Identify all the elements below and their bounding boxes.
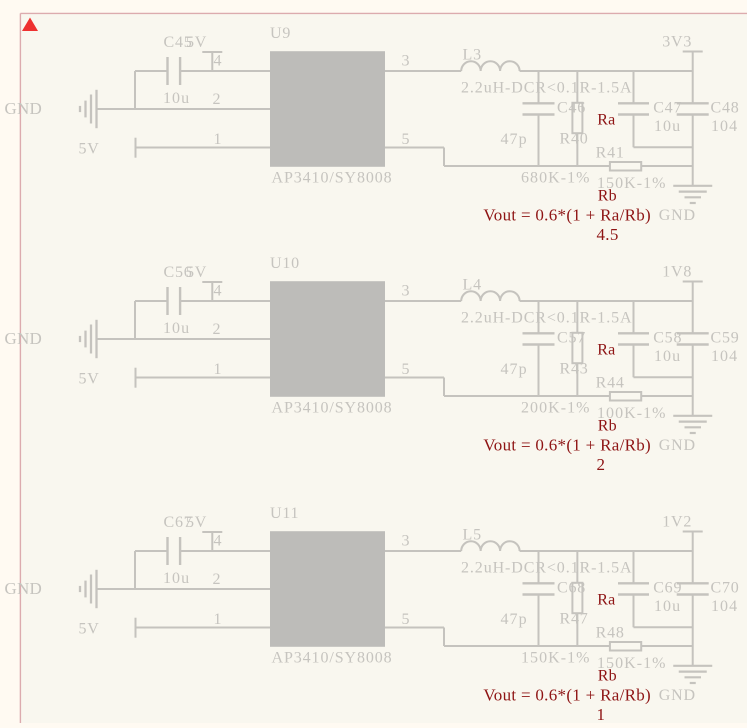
svg-text:1: 1: [214, 131, 223, 148]
svg-text:4: 4: [214, 52, 223, 69]
wire to C56 left plate: [135, 300, 168, 302]
capacitor C57: [538, 301, 540, 333]
power symbol 1V2: [683, 531, 703, 533]
svg-text:5: 5: [402, 131, 411, 148]
wire pin 3 to inductor L3: [385, 70, 461, 72]
svg-text:3V3: 3V3: [662, 33, 692, 50]
power symbol 1V8: [683, 281, 703, 283]
svg-text:GND: GND: [659, 687, 696, 704]
svg-text:C59: C59: [711, 329, 740, 346]
wire C45 to pin 4: [180, 70, 270, 72]
capacitor C58: [633, 301, 635, 333]
svg-text:5V: 5V: [186, 514, 207, 531]
wire R44 to ground net: [641, 395, 693, 397]
inductor L4: [461, 291, 519, 301]
svg-text:Vout = 0.6*(1 + Ra/Rb): Vout = 0.6*(1 + Ra/Rb): [483, 205, 651, 224]
power symbol 5V (top): [211, 282, 213, 301]
svg-text:104: 104: [711, 598, 738, 615]
wire 5V stub to pin 1 of U9: [136, 147, 271, 149]
svg-text:R41: R41: [596, 144, 625, 161]
connector stub 5V (bottom left): [135, 138, 137, 158]
resistor R41 (Rb): [610, 162, 641, 171]
svg-text:1V8: 1V8: [662, 263, 692, 280]
output net vertical wire 1V2: [692, 532, 694, 584]
inductor L5: [461, 541, 519, 551]
ground symbol GND (right): [673, 415, 712, 417]
svg-text:10u: 10u: [163, 90, 190, 107]
wire junction to C67: [134, 551, 136, 589]
svg-text:AP3410/SY8008: AP3410/SY8008: [272, 400, 393, 417]
svg-text:U10: U10: [270, 255, 300, 272]
svg-text:2.2uH-DCR<0.1R-1.5A: 2.2uH-DCR<0.1R-1.5A: [461, 80, 632, 97]
wire C67 to pin 4: [180, 550, 270, 552]
svg-text:10u: 10u: [654, 348, 681, 365]
svg-text:Ra: Ra: [597, 112, 615, 129]
wire pin 5 of U9: [385, 147, 444, 149]
marker red triangle: [22, 18, 38, 32]
wire junction to C56: [134, 301, 136, 339]
svg-text:R48: R48: [596, 624, 625, 641]
wire GND to pin 2 of U11: [97, 588, 271, 590]
svg-text:Rb: Rb: [598, 668, 617, 685]
svg-text:Vout = 0.6*(1 + Ra/Rb): Vout = 0.6*(1 + Ra/Rb): [483, 685, 651, 704]
svg-text:Rb: Rb: [598, 418, 617, 435]
output net vertical wire 3V3: [692, 52, 694, 104]
svg-text:C48: C48: [711, 99, 740, 116]
wire C56 to pin 4: [180, 300, 270, 302]
svg-text:5V: 5V: [186, 264, 207, 281]
resistor R47 (Ra): [576, 551, 578, 583]
connector stub 5V (bottom left): [135, 368, 137, 388]
resistor R48 (Rb): [610, 642, 641, 651]
svg-text:47p: 47p: [501, 131, 528, 148]
capacitor C46: [538, 71, 540, 103]
resistor R40 (Ra): [576, 71, 578, 103]
svg-text:U11: U11: [270, 505, 299, 522]
svg-text:1V2: 1V2: [662, 513, 692, 530]
capacitor C56: [166, 287, 168, 315]
wire L3 to output net 3V3: [520, 70, 693, 72]
svg-text:GND: GND: [5, 99, 42, 118]
svg-text:C70: C70: [711, 579, 740, 596]
svg-text:1: 1: [214, 361, 223, 378]
capacitor C70: [677, 582, 709, 584]
wire to C67 left plate: [135, 550, 168, 552]
svg-text:10u: 10u: [163, 320, 190, 337]
ground symbol GND (right): [673, 185, 712, 187]
feedback rail to R48: [444, 645, 610, 647]
svg-text:5: 5: [402, 611, 411, 628]
svg-text:5V: 5V: [79, 621, 100, 638]
svg-text:R40: R40: [560, 130, 589, 147]
svg-text:GND: GND: [659, 207, 696, 224]
svg-text:4: 4: [214, 532, 223, 549]
svg-text:3: 3: [402, 282, 411, 299]
svg-text:10u: 10u: [163, 570, 190, 587]
wire to C45 left plate: [135, 70, 168, 72]
capacitor C68: [538, 551, 540, 583]
svg-text:10u: 10u: [654, 598, 681, 615]
svg-text:5: 5: [402, 361, 411, 378]
capacitor C47: [633, 71, 635, 103]
feedback rail to R44: [444, 395, 610, 397]
capacitor C69: [633, 551, 635, 583]
resistor R43 (Ra): [576, 301, 578, 333]
inductor L3: [461, 61, 519, 71]
svg-text:GND: GND: [5, 579, 42, 598]
feedback rail to R41: [444, 165, 610, 167]
svg-text:10u: 10u: [654, 118, 681, 135]
wire L4 to output net 1V8: [520, 300, 693, 302]
power symbol 5V (top): [211, 52, 213, 71]
sheet border top: [20, 12, 747, 14]
svg-text:680K-1%: 680K-1%: [521, 169, 591, 186]
wire pin 5 of U11: [385, 627, 444, 629]
svg-text:47p: 47p: [501, 611, 528, 628]
wire R48 to ground net: [641, 645, 693, 647]
wire pin 5 of U10: [385, 377, 444, 379]
capacitor C45: [166, 57, 168, 85]
svg-text:Ra: Ra: [597, 342, 615, 359]
svg-text:L5: L5: [463, 527, 482, 544]
power symbol 5V (top): [211, 532, 213, 551]
wire GND to pin 2 of U10: [97, 338, 271, 340]
svg-text:3: 3: [402, 52, 411, 69]
svg-text:1: 1: [597, 705, 606, 723]
svg-text:104: 104: [711, 118, 738, 135]
svg-text:R44: R44: [596, 374, 625, 391]
wire GND to pin 2 of U9: [97, 108, 271, 110]
wire R41 to ground net: [641, 165, 693, 167]
ground symbol GND (right): [673, 665, 712, 667]
svg-text:2: 2: [213, 571, 222, 588]
svg-text:GND: GND: [5, 329, 42, 348]
svg-text:47p: 47p: [501, 361, 528, 378]
wire 5V stub to pin 1 of U11: [136, 627, 271, 629]
IC U10 AP3410/SY8008 body: [270, 281, 385, 397]
svg-text:2.2uH-DCR<0.1R-1.5A: 2.2uH-DCR<0.1R-1.5A: [461, 560, 632, 577]
svg-text:U9: U9: [270, 25, 291, 42]
wire junction to C45: [134, 71, 136, 109]
svg-text:200K-1%: 200K-1%: [521, 399, 591, 416]
IC U11 AP3410/SY8008 body: [270, 531, 385, 647]
capacitor C59: [677, 332, 709, 334]
svg-text:R47: R47: [560, 610, 589, 627]
svg-text:AP3410/SY8008: AP3410/SY8008: [272, 650, 393, 667]
IC U9 AP3410/SY8008 body: [270, 51, 385, 167]
svg-text:L4: L4: [463, 277, 482, 294]
wire pin 3 to inductor L4: [385, 300, 461, 302]
svg-text:5V: 5V: [79, 141, 100, 158]
svg-text:AP3410/SY8008: AP3410/SY8008: [272, 170, 393, 187]
resistor R44 (Rb): [610, 392, 641, 401]
ground symbol GND (left, section U10): [95, 320, 97, 358]
svg-text:L3: L3: [463, 47, 482, 64]
ground symbol GND (left, section U11): [95, 570, 97, 608]
wire 5V stub to pin 1 of U10: [136, 377, 271, 379]
svg-text:2: 2: [213, 91, 222, 108]
svg-text:150K-1%: 150K-1%: [521, 649, 591, 666]
svg-text:4.5: 4.5: [597, 225, 619, 244]
output net vertical wire 1V8: [692, 282, 694, 334]
svg-text:3: 3: [402, 532, 411, 549]
svg-text:Ra: Ra: [597, 592, 615, 609]
connector stub 5V (bottom left): [135, 618, 137, 638]
svg-text:GND: GND: [659, 437, 696, 454]
sheet border left: [19, 13, 21, 723]
wire L5 to output net 1V2: [520, 550, 693, 552]
svg-text:104: 104: [711, 348, 738, 365]
svg-text:2: 2: [213, 321, 222, 338]
svg-text:Vout = 0.6*(1 + Ra/Rb): Vout = 0.6*(1 + Ra/Rb): [483, 435, 651, 454]
svg-text:2.2uH-DCR<0.1R-1.5A: 2.2uH-DCR<0.1R-1.5A: [461, 310, 632, 327]
power symbol 3V3: [683, 51, 703, 53]
ground symbol GND (left, section U9): [95, 90, 97, 128]
svg-text:2: 2: [597, 455, 606, 474]
capacitor C67: [166, 537, 168, 565]
svg-text:5V: 5V: [79, 371, 100, 388]
svg-text:Rb: Rb: [598, 188, 617, 205]
svg-text:R43: R43: [560, 360, 589, 377]
svg-text:1: 1: [214, 611, 223, 628]
capacitor C48: [677, 102, 709, 104]
wire pin 3 to inductor L5: [385, 550, 461, 552]
svg-text:5V: 5V: [186, 34, 207, 51]
svg-text:4: 4: [214, 282, 223, 299]
